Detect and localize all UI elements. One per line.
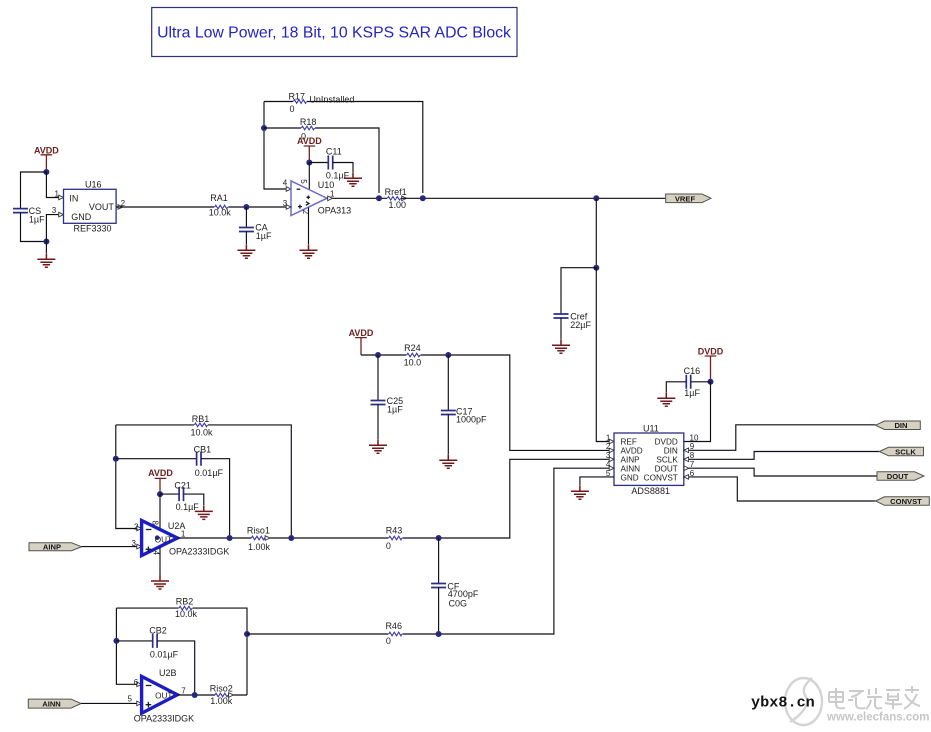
svg-text:22µF: 22µF <box>570 320 591 330</box>
connector SCLK <box>880 447 924 456</box>
svg-text:0: 0 <box>289 104 294 114</box>
svg-text:AINN: AINN <box>621 465 641 474</box>
wire AINP to U2A pin 3 <box>82 546 138 548</box>
ground (U2A V-) <box>151 575 169 589</box>
wire AINN line to R46 <box>247 633 388 635</box>
svg-text:8: 8 <box>151 521 160 526</box>
resistor R46 0 <box>385 621 402 646</box>
svg-text:1µF: 1µF <box>684 388 700 398</box>
op-amp U2A OPA2333IDGK <box>132 521 230 557</box>
svg-text:1000pF: 1000pF <box>456 414 487 424</box>
svg-text:1: 1 <box>330 189 335 198</box>
node AVDD/C21 junction <box>157 491 163 497</box>
svg-text:R46: R46 <box>385 621 402 631</box>
power AVDD (R24 rail) <box>349 328 374 355</box>
wire AVDD junction to U16 pin 1 <box>46 172 59 198</box>
svg-text:AVDD: AVDD <box>349 328 374 338</box>
wire R18 run <box>264 128 379 193</box>
wire CF bottom lead <box>438 588 440 635</box>
svg-text:VOUT: VOUT <box>89 202 115 212</box>
svg-text:GND: GND <box>71 212 92 222</box>
wire VREF junction down to Cref junction <box>595 198 597 267</box>
pin 4 arrow U10 <box>286 187 291 192</box>
pin 6 arrow U2B <box>137 682 142 687</box>
node RB2/AINN line junction <box>244 631 250 637</box>
pin 5 arrow U2B <box>137 701 142 706</box>
svg-text:AVDD: AVDD <box>148 468 173 478</box>
pin 1 arrow U16 <box>59 195 64 200</box>
capacitor C17 1000pF <box>441 406 487 424</box>
svg-text:CONVST: CONVST <box>644 473 678 482</box>
svg-text:R43: R43 <box>386 526 403 536</box>
wire RA1 to U10 pin 3 <box>228 206 287 208</box>
svg-text:AVDD: AVDD <box>621 447 643 456</box>
svg-text:4: 4 <box>283 178 288 187</box>
svg-text:AVDD: AVDD <box>34 145 59 155</box>
connector DIN <box>876 421 921 430</box>
svg-text:AVDD: AVDD <box>297 136 322 146</box>
wire R46 to U11 AINN pin 4 <box>402 468 610 634</box>
wire C16 right lead <box>691 381 711 383</box>
svg-text:AINP: AINP <box>621 456 641 465</box>
svg-text:DIN: DIN <box>664 447 678 456</box>
wire CA branch <box>245 207 247 227</box>
node AVDD/CS junction <box>43 169 49 175</box>
capacitor CB2 0.01uF <box>149 625 178 659</box>
svg-text:Rref1: Rref1 <box>385 187 407 197</box>
wire CB1 right lead down to output line <box>201 459 230 538</box>
wire CA to ground <box>245 232 247 245</box>
svg-text:CB2: CB2 <box>149 625 167 635</box>
wire DOUT net <box>684 468 915 476</box>
wire junction to ground <box>45 242 47 254</box>
watermark logo circle <box>785 678 822 725</box>
ground (Cref) <box>552 339 570 353</box>
wire RB2 left vertical to U2B pin 6 <box>116 608 137 684</box>
wire C25 branch <box>377 355 379 400</box>
svg-text:RA1: RA1 <box>210 193 228 203</box>
node CB2/output junction <box>192 692 198 698</box>
resistor RB1 10.0k <box>190 414 213 438</box>
svg-text:1.00k: 1.00k <box>210 696 233 706</box>
svg-text:AINP: AINP <box>43 543 61 552</box>
svg-text:www.elecfans.com: www.elecfans.com <box>826 712 929 724</box>
svg-text:10.0k: 10.0k <box>209 207 232 217</box>
connector AINP <box>29 543 82 552</box>
svg-text:1: 1 <box>181 530 186 539</box>
svg-text:10: 10 <box>690 433 699 442</box>
svg-text:DOUT: DOUT <box>887 472 909 481</box>
node AVDD/C11 junction <box>306 160 312 166</box>
svg-text:RB1: RB1 <box>192 414 210 424</box>
pin 3 arrow U11 <box>609 457 614 462</box>
capacitor CF 4700pF C0G <box>431 582 479 609</box>
svg-text:10.0: 10.0 <box>404 357 422 367</box>
wire C11 left lead <box>309 162 328 164</box>
svg-text:1µF: 1µF <box>256 231 272 241</box>
pin 6 arrow (CONVST input) <box>684 475 689 480</box>
title block <box>152 8 517 57</box>
wire AVDD to U10 V+ pin 5 <box>308 163 310 191</box>
pin 3 arrow U2A <box>137 544 142 549</box>
svg-text:1: 1 <box>55 190 60 199</box>
U16 REF3330 box <box>52 180 126 234</box>
svg-text:0.01µF: 0.01µF <box>195 468 224 478</box>
svg-text:DIN: DIN <box>894 421 907 430</box>
resistor R17 0 Uninstalled <box>288 91 354 114</box>
wire C25 to ground <box>377 405 379 440</box>
wire AVDD junction to CS branch <box>21 172 47 208</box>
node VREF/Cref junction <box>593 195 599 201</box>
node CB2 left junction <box>113 638 119 644</box>
resistor Rref1 1.00 <box>385 187 407 210</box>
node C17 junction <box>445 352 451 358</box>
pin 2 arrow U16 output <box>118 205 123 210</box>
svg-text:DOUT: DOUT <box>655 465 678 474</box>
wire C16 left lead to ground <box>666 382 686 392</box>
svg-text:0.1µF: 0.1µF <box>176 502 200 512</box>
pin 7 arrow (DOUT output) <box>684 466 689 471</box>
svg-text:0: 0 <box>386 636 391 646</box>
watermark chinese characters <box>829 686 920 709</box>
ground (CS/U16) <box>37 253 55 267</box>
wire Rref1 to VREF connector <box>401 197 666 199</box>
pin 9 arrow (DIN input) <box>684 448 689 453</box>
node R17/R18 left junction <box>261 125 267 131</box>
svg-text:REF3330: REF3330 <box>74 223 112 233</box>
wire U11 GND pin 5 to ground <box>580 477 614 485</box>
wire CB1 left lead <box>116 458 197 460</box>
svg-text:VREF: VREF <box>675 194 696 203</box>
svg-text:10.0k: 10.0k <box>175 609 198 619</box>
resistor R18 0 <box>300 117 317 141</box>
capacitor CB1 0.01uF <box>194 444 224 478</box>
connector VREF <box>666 194 711 203</box>
svg-text:UnInstalled: UnInstalled <box>309 95 354 105</box>
svg-text:Riso2: Riso2 <box>210 684 233 694</box>
ground (C16) <box>657 392 675 406</box>
node RA1/CA junction <box>243 204 249 210</box>
node CB1 left junction <box>113 456 119 462</box>
wire DVDD to U11 pin 10 <box>684 382 711 442</box>
svg-text:REF: REF <box>621 438 637 447</box>
svg-text:1µF: 1µF <box>29 215 45 225</box>
resistor R24 10.0 <box>404 343 422 367</box>
wire CB2 left lead <box>116 640 152 642</box>
svg-text:1: 1 <box>606 433 611 442</box>
wire Cref junction down to U11 REF pin 1 <box>596 268 610 442</box>
wire U16 pin 3 to lower junction <box>46 215 63 242</box>
op-amp U10 OPA313 <box>283 178 351 215</box>
svg-text:GND: GND <box>621 473 639 482</box>
svg-text:U2B: U2B <box>159 668 177 678</box>
wire U10 V- pin 2 to ground <box>308 208 310 245</box>
svg-text:2: 2 <box>134 522 139 531</box>
svg-text:OUT: OUT <box>155 691 172 700</box>
svg-text:6: 6 <box>134 678 139 687</box>
svg-text:CB1: CB1 <box>194 444 212 454</box>
wire C21 left lead <box>160 493 179 495</box>
svg-text:U16: U16 <box>85 180 102 190</box>
ground (C21) <box>195 505 213 519</box>
svg-text:2: 2 <box>606 442 611 451</box>
svg-text:0.01µF: 0.01µF <box>150 649 179 659</box>
capacitor CA 1uF <box>239 222 272 241</box>
svg-text:RB2: RB2 <box>176 596 194 606</box>
wire Cref branch <box>561 268 596 314</box>
node CS/GND junction <box>43 239 49 245</box>
arrow after Riso2 <box>229 693 234 698</box>
svg-text:SCLK: SCLK <box>656 456 678 465</box>
svg-text:C0G: C0G <box>449 598 468 608</box>
pin 4 arrow U11 <box>609 466 614 471</box>
capacitor C11 0.1uF <box>326 147 350 181</box>
svg-text:1.00: 1.00 <box>389 200 407 210</box>
capacitor C16 1uF <box>684 366 701 398</box>
svg-text:3: 3 <box>52 206 57 215</box>
svg-text:Riso1: Riso1 <box>247 526 270 536</box>
svg-text:OPA2333IDGK: OPA2333IDGK <box>134 714 194 724</box>
node CF top junction <box>436 535 442 541</box>
ground (C25) <box>369 439 387 453</box>
node RB1/output junction <box>288 535 294 541</box>
svg-text:7: 7 <box>181 687 186 696</box>
wire C21 right lead to ground <box>184 494 204 505</box>
capacitor CS 1uF <box>13 206 45 225</box>
capacitor Cref 22uF <box>554 311 592 330</box>
svg-text:5: 5 <box>299 179 308 184</box>
node R17 output junction <box>420 195 426 201</box>
pin 3 arrow U16 <box>59 212 64 217</box>
svg-text:OPA2333IDGK: OPA2333IDGK <box>169 547 229 557</box>
wire CF top lead <box>438 538 440 583</box>
wire SCLK net <box>684 452 880 460</box>
pin 1 arrow U11 <box>609 439 614 444</box>
arrow after Rref1 <box>402 196 407 201</box>
connector CONVST <box>876 497 930 506</box>
svg-text:DVDD: DVDD <box>698 347 724 357</box>
pin 1 arrow U10 output <box>328 196 333 201</box>
capacitor C21 0.1uF <box>174 481 199 512</box>
wire U10 output to Rref1 <box>327 197 387 199</box>
node Cref branch junction <box>593 265 599 271</box>
ground (U10 V-) <box>300 244 318 258</box>
wire U2A output line <box>177 537 388 539</box>
resistor Riso1 1.00k <box>247 526 271 553</box>
wire CB2 right lead down to output junction <box>157 641 195 695</box>
svg-text:10.0k: 10.0k <box>190 428 213 438</box>
wire RB1 left vertical to U2A pin 2 <box>116 425 137 529</box>
connector DOUT <box>877 472 924 481</box>
connector AINN <box>28 699 81 708</box>
svg-text:AINN: AINN <box>42 699 61 708</box>
wire CONVST net <box>684 477 876 501</box>
svg-text:5: 5 <box>128 695 133 704</box>
pin 8 arrow (SCLK input) <box>684 457 689 462</box>
node R18 output junction <box>376 195 382 201</box>
ground (U11 GND) <box>571 485 589 499</box>
wire AVDD to U2A V+ pin 8 <box>159 494 161 530</box>
svg-text:1.00k: 1.00k <box>248 542 271 552</box>
node CF bottom junction <box>436 631 442 637</box>
wire U16 VOUT to RA1 <box>116 206 214 208</box>
ground (C11) <box>344 172 362 186</box>
svg-text:CONVST: CONVST <box>890 497 922 506</box>
wire AVDD rail <box>361 355 610 450</box>
wire RB2 feedback top run <box>116 608 247 695</box>
pin 2 arrow U11 <box>609 448 614 453</box>
wire CS bottom to lower junction <box>21 213 47 242</box>
wire AINN to U2B pin 5 <box>81 702 137 704</box>
svg-text:ybx8.cn: ybx8.cn <box>751 694 815 712</box>
wire R17 top run <box>264 102 423 194</box>
svg-text:ADS8881: ADS8881 <box>631 486 670 496</box>
svg-text:OPA313: OPA313 <box>318 206 351 216</box>
node DVDD/C16 junction <box>708 379 714 385</box>
svg-text:U11: U11 <box>643 424 659 434</box>
resistor RA1 10.0k <box>209 193 232 218</box>
power AVDD (U16) <box>34 145 59 172</box>
wire R17 left vertical / feedback loop <box>264 102 287 190</box>
svg-text:IN: IN <box>69 193 78 203</box>
svg-text:1µF: 1µF <box>387 405 403 415</box>
wire RB1 feedback top run <box>116 425 291 538</box>
svg-text:R24: R24 <box>404 343 421 353</box>
power AVDD (U10) <box>297 136 322 162</box>
svg-text:C16: C16 <box>684 366 701 376</box>
wire C11 right lead to ground <box>333 163 353 173</box>
power DVDD <box>698 347 724 382</box>
svg-text:DVDD: DVDD <box>655 438 678 447</box>
svg-text:Ultra Low Power, 18 Bit, 10 KS: Ultra Low Power, 18 Bit, 10 KSPS SAR ADC… <box>157 25 511 42</box>
pin 3 arrow U10 <box>286 205 291 210</box>
wire U2B output line <box>177 694 247 696</box>
wire C17 to ground <box>447 415 449 455</box>
svg-text:C11: C11 <box>326 147 342 157</box>
power AVDD (U2A) <box>148 468 173 494</box>
ground (C17) <box>439 454 457 468</box>
svg-text:C21: C21 <box>174 481 191 491</box>
svg-text:R18: R18 <box>300 117 317 127</box>
node C25 junction <box>375 352 381 358</box>
wire Cref to ground <box>560 318 562 339</box>
resistor Riso2 1.00k <box>210 684 233 706</box>
svg-text:U10: U10 <box>318 180 335 190</box>
svg-text:4: 4 <box>152 551 161 556</box>
wire R43 to U11 AINP pin 3 <box>402 459 610 538</box>
capacitor C25 1uF <box>371 396 404 415</box>
node CB1/output junction <box>227 535 233 541</box>
resistor RB2 10.0k <box>175 596 198 619</box>
wire U2A V- pin 4 to ground <box>159 547 161 575</box>
resistor R43 0 <box>386 526 403 551</box>
svg-text:SCLK: SCLK <box>895 448 916 457</box>
wire C17 branch <box>447 355 449 410</box>
pin 2 arrow U2A <box>137 526 142 531</box>
svg-text:3: 3 <box>132 539 137 548</box>
svg-text:R17: R17 <box>288 91 305 101</box>
ground (CA) <box>237 244 255 258</box>
wire DIN net <box>684 425 876 451</box>
arrow after Riso1 <box>265 536 270 541</box>
svg-text:0: 0 <box>386 541 391 551</box>
op-amp U2B OPA2333IDGK <box>128 668 195 723</box>
